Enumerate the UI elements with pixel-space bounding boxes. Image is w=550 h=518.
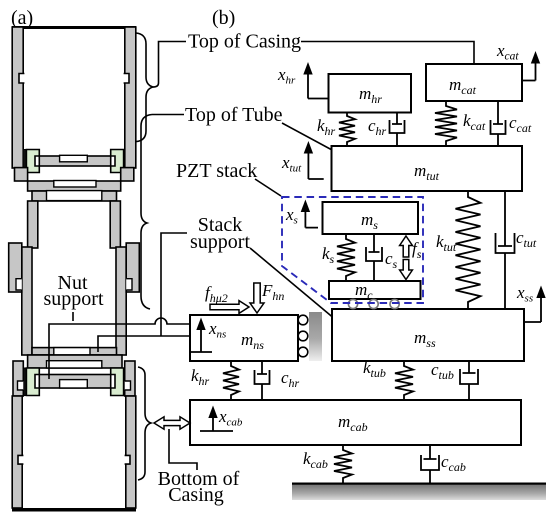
leader stack-support to m_ss — [250, 248, 348, 330]
coupling hook left — [9, 243, 22, 292]
svg-text:Casing: Casing — [168, 484, 224, 506]
bottom casing left hook notch — [18, 381, 24, 390]
PZT dashed region — [282, 197, 423, 303]
damper c_cat — [491, 101, 506, 146]
disp arrow x_tut — [281, 141, 324, 179]
upper nut right green I-beam — [111, 150, 124, 173]
nut support tick — [72, 312, 74, 321]
disp arrow x_ns — [190, 318, 226, 353]
damper c_hr top — [390, 112, 405, 146]
upper nut connecting bar — [39, 156, 110, 166]
damper c_tub — [460, 361, 478, 400]
brace bottom-of-casing — [138, 367, 151, 480]
hook right notch — [126, 279, 132, 290]
mass box m_ns — [190, 315, 298, 361]
tube flange window — [54, 181, 96, 188]
casing top-right wall — [125, 27, 136, 168]
tube flange step — [32, 191, 117, 201]
upper nut right black cap — [121, 150, 124, 174]
disp arrow x_cab — [200, 406, 243, 432]
svg-text:support: support — [190, 231, 250, 253]
tube bottom flange row1 — [32, 348, 117, 355]
brace top-of-casing — [136, 33, 153, 142]
tube step window — [47, 191, 102, 201]
svg-text:(a): (a) — [11, 7, 33, 29]
force F_hn down arrow — [250, 283, 264, 313]
row2 window — [47, 361, 102, 368]
upper nut bar window — [60, 155, 88, 162]
force f_s down arrow — [400, 260, 413, 280]
force f_hmu2 right arrow — [210, 301, 249, 314]
svg-text:Top of Tube: Top of Tube — [185, 104, 283, 126]
leader top-of-casing to brace — [153, 42, 186, 88]
tube top flange — [28, 181, 121, 191]
disp arrow x_cat — [496, 41, 540, 81]
casing lower lip right — [121, 168, 134, 181]
friction wall beside m_ns — [309, 312, 322, 361]
bottom casing right hook — [125, 361, 135, 396]
casing bottom cap — [12, 508, 136, 512]
mass box m_tut — [332, 146, 523, 191]
spring k_tub — [395, 361, 413, 400]
rollers under m_c — [348, 299, 357, 308]
mass box m_ss — [332, 309, 524, 361]
svg-text:Top of Casing: Top of Casing — [188, 31, 301, 53]
leader pzt-stack to dashed box — [255, 179, 281, 196]
lower nut left black cap — [23, 368, 26, 396]
bottom casing right hook notch — [125, 381, 131, 390]
bottom-left wall notch — [18, 455, 23, 464]
lower nut right black cap — [121, 368, 124, 396]
tube wall upper-left — [28, 201, 38, 248]
double arrow casing-m_cab — [154, 417, 190, 429]
leader stack-support elbow — [161, 233, 187, 336]
lower nut right green I-beam — [111, 368, 124, 396]
right wall notch — [124, 74, 129, 84]
wire top-of-casing to m_cat — [301, 42, 474, 65]
rollers right of m_ns — [298, 315, 308, 325]
hook left notch — [16, 279, 22, 290]
disp arrow x_ss — [516, 283, 546, 322]
lower nut connecting bar — [39, 375, 110, 389]
wire nut to m_ns with hop — [49, 318, 190, 379]
force f_s up arrow — [400, 236, 413, 257]
tube wall lower-right — [116, 247, 126, 355]
spring k_cat — [435, 101, 457, 146]
damper c_s — [366, 234, 382, 281]
mass box m_c — [329, 281, 421, 299]
spring k_hr bottom — [223, 361, 239, 400]
disp arrow x_hr — [277, 62, 329, 99]
mass box m_cab — [190, 400, 521, 445]
mass box m_hr — [329, 74, 412, 113]
disp arrow x_s — [285, 200, 318, 228]
svg-text:(b): (b) — [212, 7, 235, 29]
casing top cap — [12, 26, 136, 29]
bottom casing left hook — [13, 361, 23, 396]
wire tube-nut to m_ns — [98, 336, 190, 352]
casing top-left wall — [12, 27, 23, 168]
lower nut left green I-beam — [26, 368, 39, 396]
leader bottom-of-casing elbow — [169, 429, 197, 470]
tube wall lower-left — [22, 247, 32, 355]
spring k_hr top — [339, 112, 355, 146]
leader top-of-tube to m_tut — [282, 123, 345, 157]
bottom-right wall notch — [125, 455, 130, 464]
upper nut left green I-beam — [26, 150, 39, 173]
spring k_tut — [456, 191, 481, 308]
lower nut bar window — [60, 380, 88, 388]
row1 window — [54, 348, 90, 355]
ground hatch bar — [292, 484, 546, 501]
mass box m_s — [323, 202, 419, 234]
svg-text:support: support — [44, 288, 104, 310]
damper c_tut — [496, 191, 515, 308]
coupling hook right — [126, 243, 139, 292]
svg-text:PZT stack: PZT stack — [176, 160, 257, 182]
leader top-of-tube left — [152, 114, 184, 116]
mass box m_cat — [426, 64, 522, 101]
tube wall upper-right — [110, 201, 120, 248]
casing lower lip left — [15, 168, 28, 181]
spring k_s — [337, 234, 355, 281]
damper c_cab — [421, 445, 439, 483]
bottom casing right wall — [126, 396, 136, 508]
upper nut left black cap — [23, 150, 26, 174]
spring k_cab — [334, 445, 352, 483]
left wall notch — [19, 74, 24, 84]
damper c_hr bottom — [255, 361, 270, 400]
brace tube — [141, 115, 152, 310]
bottom casing left wall — [12, 396, 22, 508]
tube bottom flange row2 — [28, 355, 122, 368]
